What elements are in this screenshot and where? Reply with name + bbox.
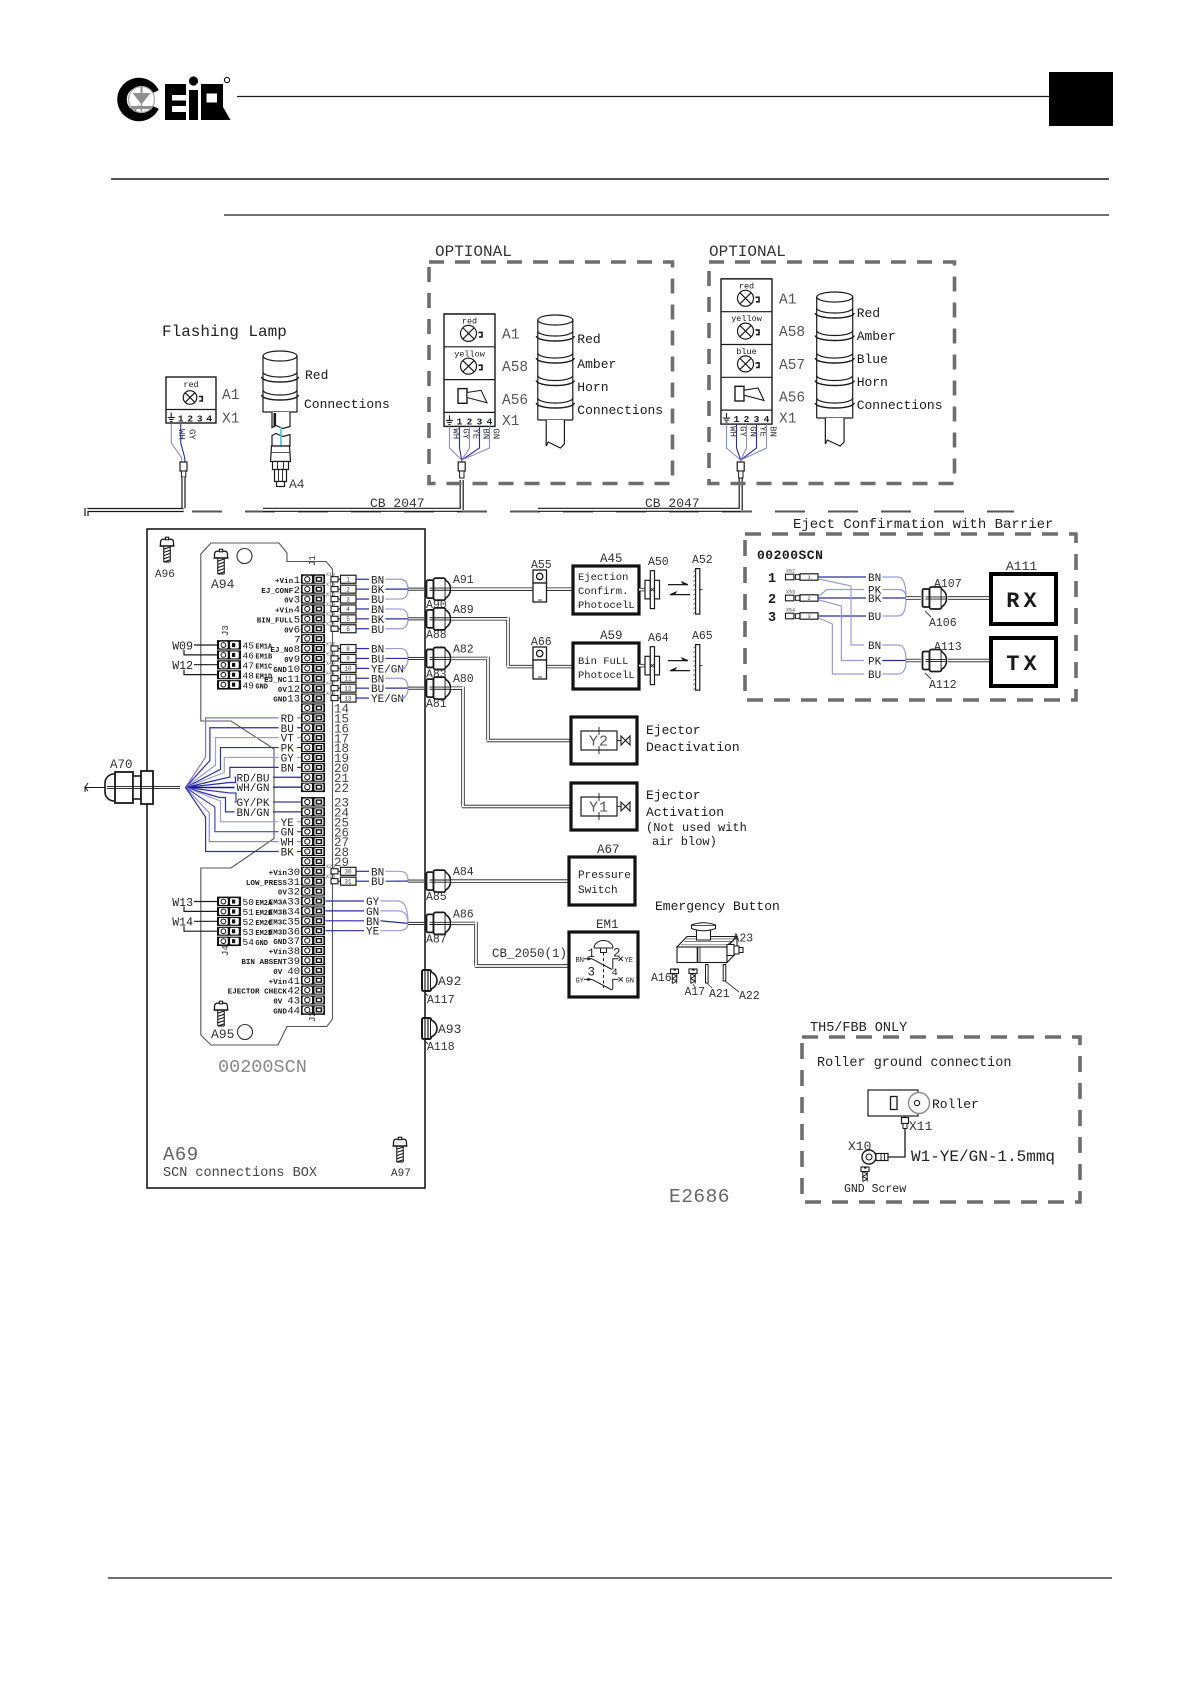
svg-text:A1: A1 <box>502 327 519 343</box>
svg-text:A56: A56 <box>779 391 805 407</box>
lamp A1 box <box>166 377 216 423</box>
screw A97 <box>393 1137 408 1162</box>
PCB outline <box>201 543 333 1045</box>
wire PK pin 18 <box>186 748 279 788</box>
cable gland A89/A88 <box>326 641 408 676</box>
cable gland A82/A83 <box>326 671 408 706</box>
svg-text:PK: PK <box>868 657 882 669</box>
svg-text:13: 13 <box>344 695 352 702</box>
svg-text:4: 4 <box>764 414 770 425</box>
svg-text:1: 1 <box>587 947 595 961</box>
svg-text:X53: X53 <box>786 590 795 596</box>
svg-text:J1: J1 <box>308 555 318 566</box>
svg-text:Horn: Horn <box>857 375 888 390</box>
wire WH/GN pin 22 <box>186 787 235 789</box>
svg-text:J2: J2 <box>308 1011 318 1022</box>
connector A93 / A118 <box>422 1018 437 1039</box>
connector J3 rows 45-49 <box>217 625 273 691</box>
svg-text:4: 4 <box>346 606 350 613</box>
svg-text:A23: A23 <box>733 933 754 946</box>
svg-text:A1: A1 <box>222 388 239 404</box>
wire BN/GN pin 24 <box>186 788 235 812</box>
beacon tower <box>815 292 854 446</box>
svg-text:A88: A88 <box>426 629 447 642</box>
svg-text:8: 8 <box>346 646 350 653</box>
svg-text:Ejector: Ejector <box>646 788 701 803</box>
svg-text:red: red <box>183 380 198 390</box>
svg-text:3: 3 <box>587 966 595 980</box>
W13 second wire elbow <box>184 907 217 912</box>
svg-text:X11: X11 <box>909 1119 933 1134</box>
svg-text:Red: Red <box>577 332 600 347</box>
svg-text:A106: A106 <box>929 617 957 630</box>
svg-text:A118: A118 <box>427 1041 455 1054</box>
svg-text:W12: W12 <box>172 660 193 673</box>
svg-text:(Not used with: (Not used with <box>646 821 747 835</box>
svg-text:A80: A80 <box>453 673 474 686</box>
wire run A82 to Y2 <box>451 657 571 741</box>
svg-text:BN: BN <box>868 641 881 653</box>
svg-text:3: 3 <box>197 414 203 425</box>
roller drawing <box>868 1090 918 1116</box>
svg-text:A94: A94 <box>211 577 235 592</box>
CB_2047 cable 1 <box>263 480 462 510</box>
svg-text:A67: A67 <box>597 843 620 857</box>
svg-text:A86: A86 <box>453 908 474 921</box>
wire run A84 to A67 <box>451 879 569 882</box>
connector X11 <box>904 1116 906 1120</box>
svg-text:WH/GN: WH/GN <box>237 783 270 795</box>
ground screw <box>861 1167 869 1182</box>
svg-text:A16: A16 <box>651 972 672 985</box>
svg-text:A22: A22 <box>739 990 760 1003</box>
svg-text:A87: A87 <box>426 933 447 946</box>
screw A94 <box>214 549 229 574</box>
terminal strip X1 <box>168 413 213 425</box>
svg-text:OPTIONAL: OPTIONAL <box>709 243 786 261</box>
svg-text:A93: A93 <box>438 1022 461 1037</box>
svg-text:5: 5 <box>346 616 350 623</box>
svg-text:EM1: EM1 <box>596 918 619 932</box>
svg-text:E2686: E2686 <box>669 1186 730 1208</box>
svg-text:A64: A64 <box>648 632 669 645</box>
svg-text:4: 4 <box>206 414 212 425</box>
svg-text:4: 4 <box>487 416 493 427</box>
screw A17 <box>689 969 697 984</box>
svg-text:YE/GN: YE/GN <box>371 694 404 706</box>
svg-text:3: 3 <box>768 611 776 626</box>
screw A95 <box>214 1001 229 1026</box>
svg-text:A70: A70 <box>110 758 133 772</box>
wire BU pin 16 <box>186 728 279 788</box>
cable gland A91/A90 <box>326 602 408 637</box>
connector J4 rows 50-54 <box>217 897 273 956</box>
svg-text:A58: A58 <box>502 360 528 376</box>
wire BN pin 20 <box>186 767 279 787</box>
cable gland A86 / A87 <box>408 922 424 925</box>
svg-text:Red: Red <box>305 368 328 383</box>
svg-text:PhotocelL: PhotocelL <box>578 600 635 612</box>
svg-text:X1: X1 <box>502 414 519 430</box>
lamp stack box <box>721 279 772 424</box>
wire VT pin 17 <box>186 738 279 788</box>
svg-text:A45: A45 <box>600 552 623 566</box>
svg-text:TH5/FBB ONLY: TH5/FBB ONLY <box>810 1021 907 1036</box>
fuse links and gland wire groups <box>326 572 408 607</box>
connector A92 / A117 <box>422 970 437 991</box>
svg-text:A57: A57 <box>779 358 805 374</box>
svg-text:Ejection: Ejection <box>578 572 628 584</box>
svg-text:air blow): air blow) <box>652 835 717 849</box>
wire GY/PK pin 23 <box>186 788 237 803</box>
svg-text:A91: A91 <box>453 574 474 587</box>
svg-text:A69: A69 <box>163 1144 199 1166</box>
svg-text:TX: TX <box>1006 652 1040 677</box>
svg-text:X54: X54 <box>786 608 795 614</box>
screw A16 <box>671 969 679 984</box>
svg-text:BK: BK <box>868 594 882 606</box>
beacon tower <box>536 315 574 448</box>
svg-text:GY: GY <box>187 429 197 440</box>
svg-text:A81: A81 <box>426 698 447 711</box>
svg-text:Connections: Connections <box>577 403 663 418</box>
wire RD/BU pin 21 <box>186 777 236 787</box>
svg-text:YE: YE <box>625 957 633 965</box>
terminal strip X1 <box>446 415 493 427</box>
wire WH pin 27 <box>186 788 279 842</box>
svg-text:BN: BN <box>768 426 778 437</box>
svg-text:A97: A97 <box>391 1168 411 1180</box>
W14 second wire elbow <box>184 926 217 931</box>
pcb hole top <box>237 549 252 564</box>
svg-text:BU: BU <box>868 670 881 682</box>
svg-text:A65: A65 <box>692 630 713 643</box>
emergency button assembly <box>677 923 743 963</box>
svg-text:31: 31 <box>344 878 352 885</box>
cable gland A91 / A90 <box>408 588 424 591</box>
wire GN pin 26 <box>186 788 279 832</box>
solenoid Y1 <box>571 783 637 830</box>
svg-text:A112: A112 <box>929 679 957 692</box>
svg-text:BN/GN: BN/GN <box>237 808 270 820</box>
svg-text:00200SCN: 00200SCN <box>218 1057 307 1078</box>
cable gland A80 / A81 <box>408 687 424 690</box>
svg-text:Connections: Connections <box>304 397 390 412</box>
wires group TX (light) <box>819 579 864 645</box>
svg-text:BU: BU <box>371 877 384 889</box>
svg-text:GND Screw: GND Screw <box>844 1183 906 1196</box>
svg-text:BK: BK <box>281 848 295 860</box>
svg-text:Connections: Connections <box>857 398 943 413</box>
svg-text:W13: W13 <box>172 897 193 910</box>
cable connector <box>458 462 465 471</box>
svg-text:11: 11 <box>344 675 352 682</box>
svg-text:BU: BU <box>868 612 881 624</box>
svg-text:Ejector: Ejector <box>646 723 701 738</box>
svg-text:A56: A56 <box>502 393 528 409</box>
pin A21 <box>706 965 709 984</box>
svg-text:Roller: Roller <box>932 1097 979 1112</box>
svg-text:4: 4 <box>612 967 618 979</box>
header rule 3 <box>224 214 1109 216</box>
wires to cable connector <box>450 426 462 462</box>
svg-text:SCN connections BOX: SCN connections BOX <box>163 1166 317 1181</box>
svg-text:A107: A107 <box>934 578 962 591</box>
header rule 2 <box>111 178 1109 180</box>
svg-text:A117: A117 <box>427 994 455 1007</box>
svg-text:CB_2047: CB_2047 <box>645 496 700 511</box>
beam arrows <box>668 584 688 586</box>
svg-text:CB_2050(1): CB_2050(1) <box>492 947 567 961</box>
svg-text:A96: A96 <box>155 569 175 581</box>
svg-text:1: 1 <box>178 414 184 425</box>
svg-text:3: 3 <box>346 596 350 603</box>
connector under lamp <box>180 462 187 471</box>
svg-text:6: 6 <box>346 626 350 633</box>
svg-text:1: 1 <box>734 414 740 425</box>
A56 cell <box>458 389 487 404</box>
svg-text:Deactivation: Deactivation <box>646 740 740 755</box>
cable gland A80/A81 <box>326 864 408 889</box>
wire YE pin 25 <box>186 788 279 822</box>
A69 SCN connections BOX outline <box>147 529 425 1188</box>
svg-text:3: 3 <box>807 613 810 620</box>
svg-text:YE: YE <box>366 927 380 939</box>
wires EM3A-EM3D to gland A86 <box>326 900 365 902</box>
CEIA logo <box>122 76 231 120</box>
svg-text:A113: A113 <box>934 641 962 654</box>
svg-text:Emergency Button: Emergency Button <box>655 899 780 914</box>
svg-text:Blue: Blue <box>857 352 888 367</box>
svg-text:00200SCN: 00200SCN <box>757 548 823 563</box>
svg-text:Red: Red <box>857 306 880 321</box>
svg-text:A82: A82 <box>453 643 474 656</box>
svg-text:30: 30 <box>344 869 352 876</box>
svg-text:2: 2 <box>346 586 350 593</box>
svg-text:A95: A95 <box>211 1027 234 1042</box>
beam arrows <box>668 660 688 662</box>
svg-text:3: 3 <box>477 416 483 427</box>
wire run A91 to A45 <box>451 587 573 590</box>
svg-text:2: 2 <box>613 947 621 961</box>
svg-text:BN: BN <box>281 763 294 775</box>
svg-text:A52: A52 <box>692 554 713 567</box>
screw A96 <box>160 537 175 562</box>
lamp stack box <box>444 314 495 426</box>
svg-text:A85: A85 <box>426 891 447 904</box>
wire run A89 to A59 <box>451 617 573 666</box>
svg-text:PhotocelL: PhotocelL <box>578 670 635 682</box>
roller dashed box <box>802 1037 1080 1202</box>
cable gland A82 / A83 <box>408 657 424 660</box>
header black box <box>1049 72 1113 126</box>
svg-text:3: 3 <box>754 414 760 425</box>
svg-text:Flashing Lamp: Flashing Lamp <box>162 323 287 341</box>
W12 second wire elbow <box>184 670 217 675</box>
W09 second wire elbow <box>184 650 217 655</box>
svg-text:A21: A21 <box>709 988 730 1001</box>
svg-text:GN: GN <box>491 428 501 439</box>
solenoid Y2 <box>571 717 637 764</box>
svg-text:1: 1 <box>768 572 776 587</box>
svg-text:J3: J3 <box>221 625 231 636</box>
svg-text:Eject Confirmation with Barrie: Eject Confirmation with Barrier <box>793 517 1053 533</box>
svg-text:A59: A59 <box>600 629 623 643</box>
svg-text:10: 10 <box>344 666 352 673</box>
svg-text:RX: RX <box>1006 589 1040 614</box>
svg-text:GY: GY <box>576 978 585 986</box>
svg-text:BU: BU <box>371 625 384 637</box>
CB_2047 cable 2 <box>538 478 741 510</box>
transmitter TX <box>991 638 1056 686</box>
svg-text:2: 2 <box>187 414 193 425</box>
gland A107/A106 <box>906 596 921 599</box>
svg-text:X1: X1 <box>222 412 239 428</box>
svg-text:BN: BN <box>868 573 881 585</box>
svg-text:22: 22 <box>334 782 349 796</box>
ground wire W1 <box>884 1129 905 1158</box>
header rule top <box>237 96 1049 98</box>
gland A113/A112 <box>906 659 921 662</box>
footer rule <box>108 1577 1112 1579</box>
terminal strip J1 rows 1-22 <box>301 555 325 792</box>
cable gland A89 / A88 <box>408 617 424 620</box>
svg-text:Pressure: Pressure <box>578 870 631 882</box>
svg-text:Switch: Switch <box>578 885 618 897</box>
cable gland A84 / A85 <box>408 880 424 883</box>
svg-text:12: 12 <box>344 685 352 692</box>
svg-text:Confirm.: Confirm. <box>578 586 628 598</box>
svg-text:A17: A17 <box>685 986 706 999</box>
wires group RX <box>818 576 866 578</box>
svg-text:2: 2 <box>467 416 473 427</box>
wire run A80 to Y1 <box>451 687 571 807</box>
wire BK pin 28 <box>186 788 279 852</box>
svg-text:X52: X52 <box>786 569 795 575</box>
svg-text:Amber: Amber <box>577 357 616 372</box>
svg-text:X1: X1 <box>779 412 796 428</box>
wire RD pin 15 <box>186 718 279 788</box>
svg-text:1: 1 <box>346 576 350 583</box>
svg-text:A1: A1 <box>779 292 796 308</box>
svg-text:A4: A4 <box>289 477 305 492</box>
OPTIONAL dashed box <box>429 262 673 484</box>
svg-text:Roller ground connection: Roller ground connection <box>817 1056 1011 1071</box>
svg-text:A84: A84 <box>453 866 474 879</box>
pcb hole bottom <box>238 1025 253 1040</box>
terminal strip X1 <box>723 413 770 425</box>
svg-text:A89: A89 <box>453 604 474 617</box>
A56 cell <box>735 386 764 401</box>
svg-text:2: 2 <box>807 595 810 602</box>
wire GY pin 19 <box>186 757 279 787</box>
svg-text:CB_2047: CB_2047 <box>370 496 425 511</box>
svg-text:J4: J4 <box>221 945 231 956</box>
terminal strip J2 rows 23-44 <box>301 797 325 1022</box>
pin A22 <box>723 965 726 982</box>
svg-text:Activation: Activation <box>646 805 724 820</box>
svg-text:OPTIONAL: OPTIONAL <box>435 243 512 261</box>
svg-text:A50: A50 <box>648 556 669 569</box>
cable connector <box>737 462 744 471</box>
svg-text:Amber: Amber <box>857 329 896 344</box>
svg-text:A92: A92 <box>438 974 461 989</box>
svg-text:9: 9 <box>346 656 350 663</box>
svg-text:A111: A111 <box>1006 559 1037 574</box>
svg-text:2: 2 <box>768 593 776 608</box>
wire run A86 to EM1 (CB_2050) <box>451 922 569 966</box>
svg-text:Bin FuLL: Bin FuLL <box>578 656 628 668</box>
svg-text:GN: GN <box>626 978 634 986</box>
wires to cable connector <box>727 424 741 462</box>
svg-text:W09: W09 <box>172 641 193 654</box>
svg-text:1: 1 <box>457 416 463 427</box>
eject dashed box <box>745 534 1076 700</box>
svg-text:W14: W14 <box>172 917 193 930</box>
OPTIONAL dashed box <box>709 262 955 484</box>
svg-text:W1-YE/GN-1.5mmq: W1-YE/GN-1.5mmq <box>911 1148 1055 1166</box>
red beacon tower <box>262 351 299 412</box>
svg-text:Horn: Horn <box>577 380 608 395</box>
flashing lamp cable <box>87 477 184 516</box>
wires to connector <box>171 424 182 462</box>
dash cable route line <box>192 511 1014 513</box>
svg-text:BN: BN <box>576 957 584 965</box>
svg-text:2: 2 <box>744 414 750 425</box>
svg-text:A58: A58 <box>779 325 805 341</box>
